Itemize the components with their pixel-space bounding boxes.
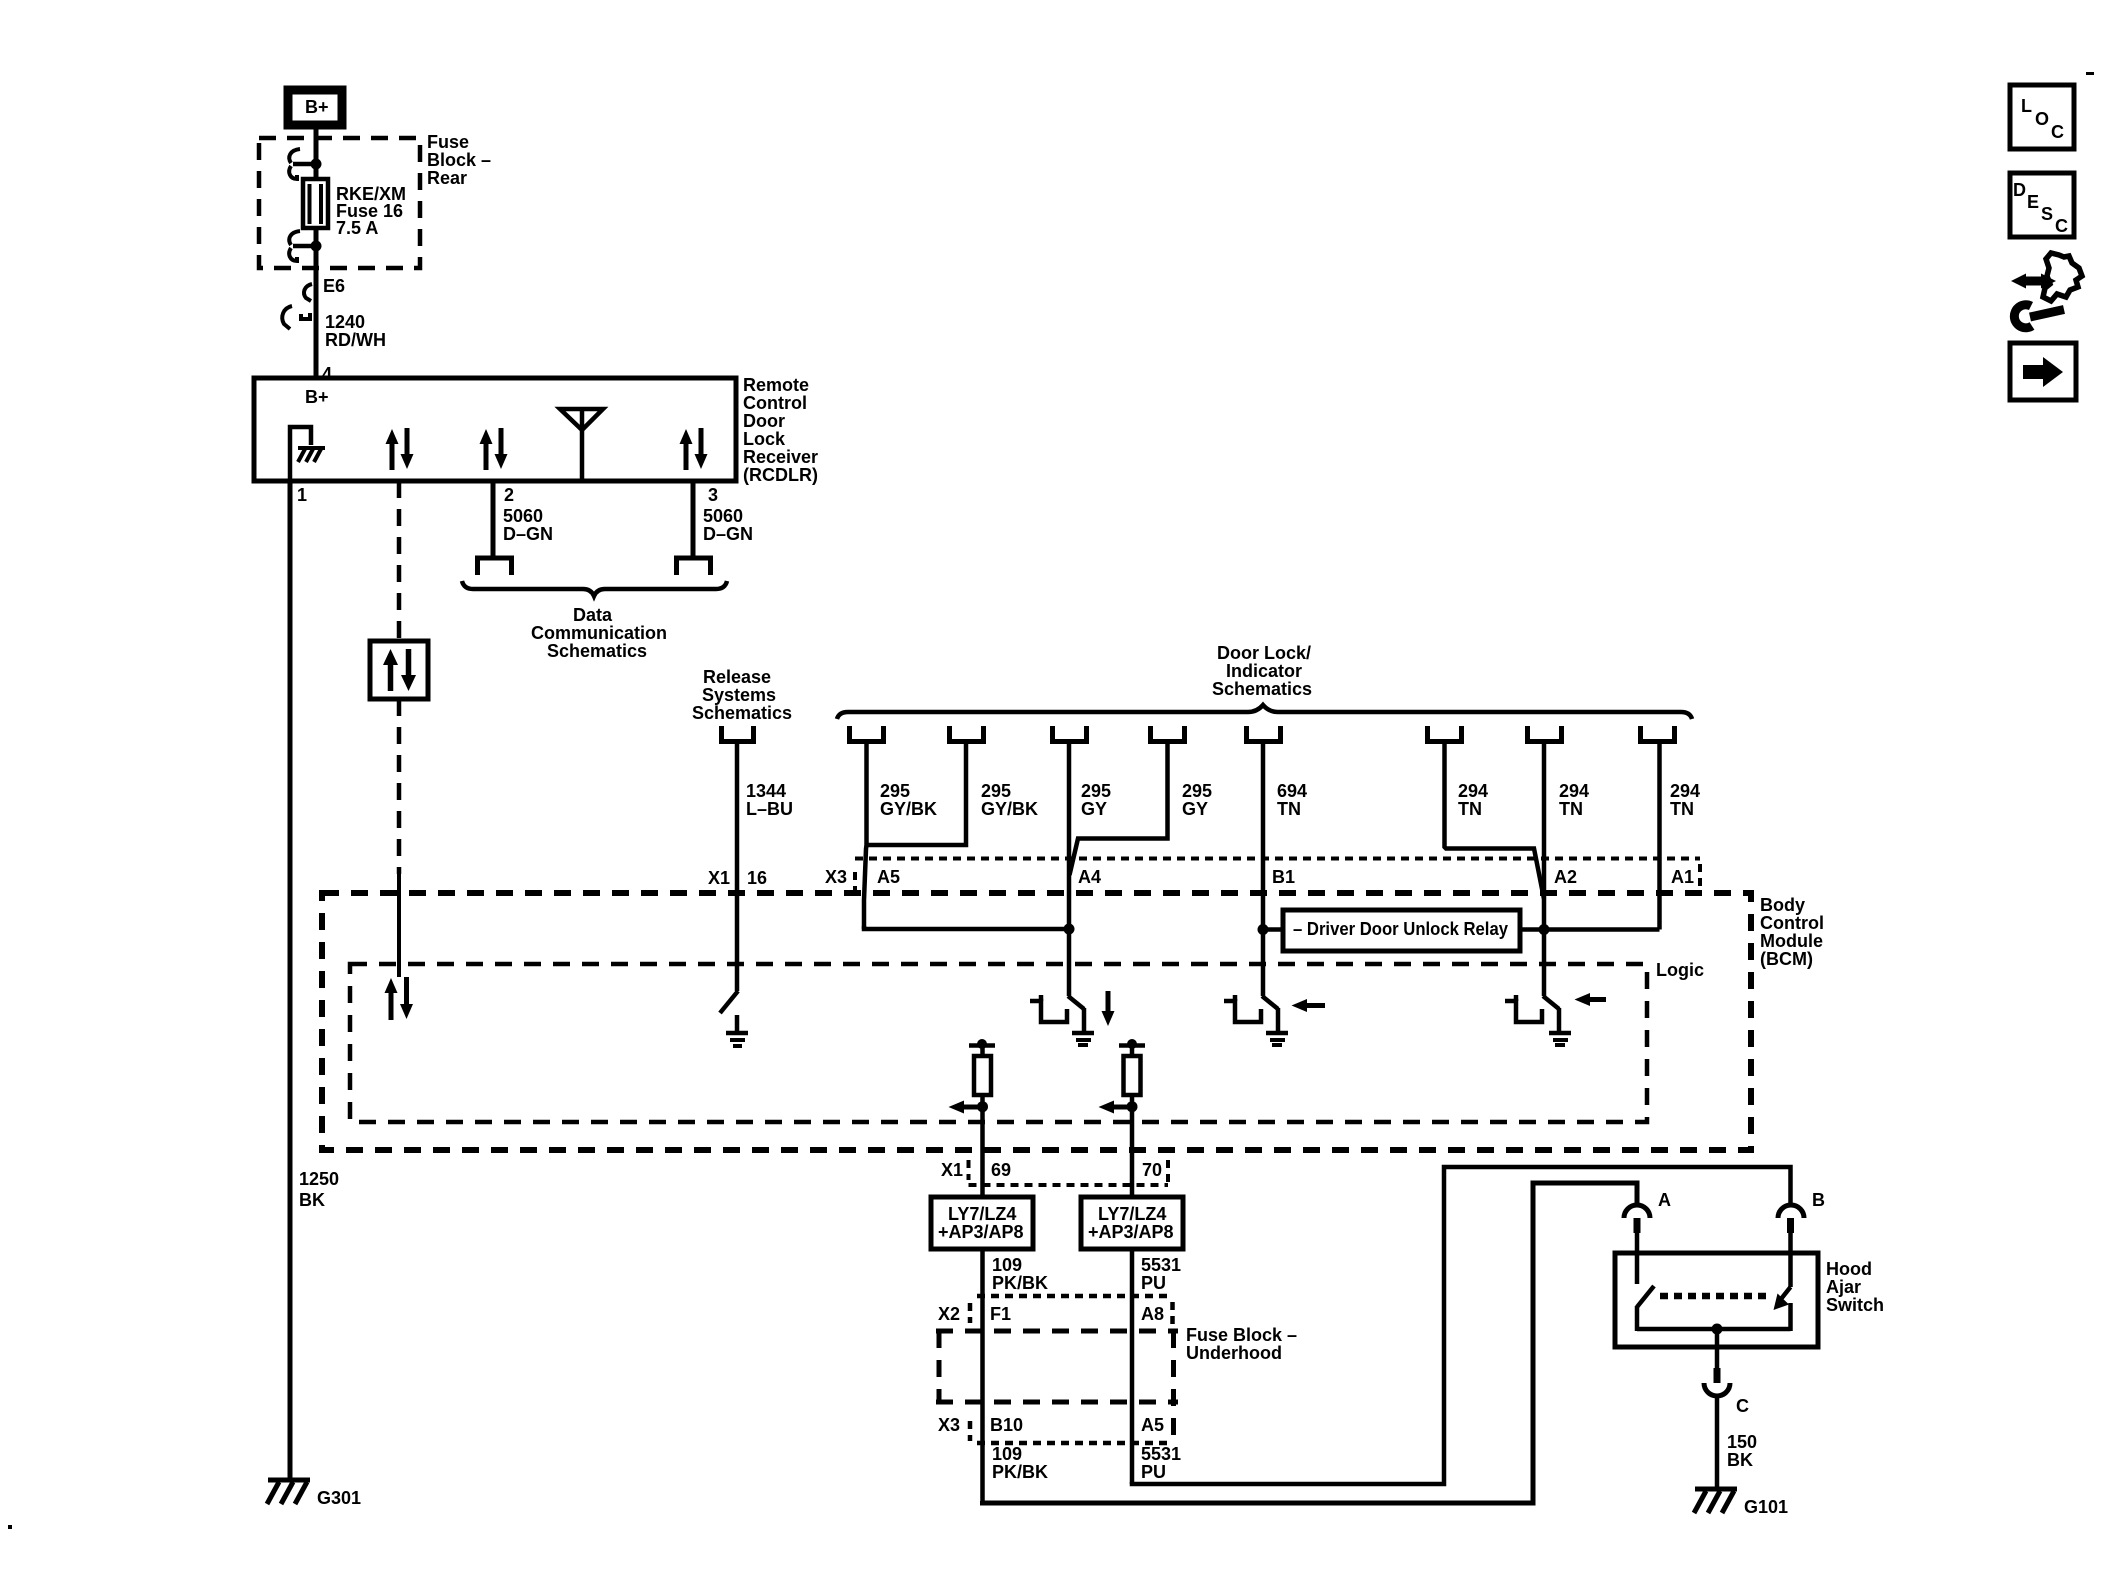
driver output hook A2: [1505, 995, 1542, 1022]
icon box LOC: [2010, 85, 2074, 149]
down arrow at A4 switch: [1102, 991, 1115, 1026]
svg-text:2: 2: [504, 485, 514, 505]
label 294 TN a: [1458, 781, 1488, 819]
label RKE/XM Fuse 16 7.5 A: [336, 184, 406, 238]
off-page pad A4 wire a: [1053, 726, 1087, 742]
fuse F16 body: [303, 179, 328, 228]
svg-text:Module: Module: [1760, 931, 1823, 951]
svg-text:B10: B10: [990, 1415, 1023, 1435]
wire 694 TN: [1261, 744, 1266, 996]
svg-text:Control: Control: [1760, 913, 1824, 933]
svg-text:Data: Data: [573, 605, 613, 625]
connector X2 dotted line: [970, 1296, 1173, 1324]
tiny mark bottom left: [8, 1525, 12, 1529]
svg-text:PU: PU: [1141, 1462, 1166, 1482]
label 1344 L-BU: [746, 781, 793, 819]
switch A2: [1543, 996, 1571, 1045]
svg-text:S: S: [2041, 204, 2053, 224]
svg-text:A2: A2: [1554, 867, 1577, 887]
wire pin 2: [491, 481, 496, 557]
junction and left arrow 70: [1099, 1101, 1138, 1114]
svg-text:(RCDLR): (RCDLR): [743, 465, 818, 485]
svg-text:Switch: Switch: [1826, 1295, 1884, 1315]
wire A into switch: [1635, 1233, 1640, 1284]
wire pin 1 to G301: [288, 481, 293, 1480]
svg-text:GY: GY: [1081, 799, 1107, 819]
wire resistor 70 down: [1130, 1095, 1135, 1197]
wire fuse to bottom clip: [314, 164, 319, 181]
svg-text:Rear: Rear: [427, 168, 467, 188]
connector A arc: [1624, 1205, 1650, 1233]
label 5060 D-GN pin2: [503, 506, 553, 544]
svg-text:B: B: [1812, 1190, 1825, 1210]
svg-text:Lock: Lock: [743, 429, 786, 449]
wire 5531 bottom run to hood switch: [1132, 1167, 1791, 1484]
svg-text:Schematics: Schematics: [692, 703, 792, 723]
label Door Lock/ Indicator Schematics: [1212, 643, 1312, 699]
connector label X1 16: [708, 868, 767, 888]
bidirectional arrows symbol 2 in RCDLR: [480, 428, 508, 470]
wire 295 GY a: [1067, 744, 1072, 996]
svg-text:+AP3/AP8: +AP3/AP8: [1088, 1222, 1174, 1242]
svg-text:109: 109: [992, 1255, 1022, 1275]
svg-text:X3: X3: [938, 1415, 960, 1435]
svg-text:Schematics: Schematics: [547, 641, 647, 661]
svg-text:A4: A4: [1078, 867, 1101, 887]
serial data arrows box: [370, 641, 428, 699]
left arrow at A2 switch: [1575, 993, 1607, 1006]
internal ground of RCDLR: [290, 427, 325, 480]
svg-text:Door Lock/: Door Lock/: [1217, 643, 1311, 663]
wire 109 through fuse block: [980, 1249, 985, 1503]
svg-text:G301: G301: [317, 1488, 361, 1508]
wire 5531 through fuse block: [1130, 1249, 1135, 1484]
svg-text:+AP3/AP8: +AP3/AP8: [938, 1222, 1024, 1242]
svg-text:A5: A5: [877, 867, 900, 887]
off-page pad B1 wire: [1247, 726, 1281, 742]
svg-text:694: 694: [1277, 781, 1307, 801]
svg-text:TN: TN: [1559, 799, 1583, 819]
svg-text:4: 4: [322, 364, 332, 384]
svg-text:70: 70: [1142, 1160, 1162, 1180]
svg-text:PK/BK: PK/BK: [992, 1273, 1048, 1293]
wire resistor 69 down: [980, 1095, 985, 1197]
svg-text:Hood: Hood: [1826, 1259, 1872, 1279]
svg-text:B+: B+: [305, 97, 329, 117]
wire 295 GY/BK b joining: [868, 744, 966, 845]
driver door unlock relay box: [1283, 910, 1520, 951]
label 5531 PU upper: [1141, 1255, 1181, 1293]
hood ajar switch box: [1615, 1253, 1818, 1347]
svg-text:GY: GY: [1182, 799, 1208, 819]
switch blade A: [1637, 1286, 1654, 1307]
svg-text:X2: X2: [938, 1304, 960, 1324]
svg-text:LY7/LZ4: LY7/LZ4: [1098, 1204, 1166, 1224]
label Fuse Block - Rear: [427, 132, 491, 188]
in-line connector symbol pair: [282, 306, 310, 329]
svg-text:Schematics: Schematics: [1212, 679, 1312, 699]
driver output hook A4: [1030, 995, 1067, 1022]
fuse block underhood dashed outline: [936, 1331, 1178, 1440]
svg-text:D–GN: D–GN: [703, 524, 753, 544]
svg-text:X3: X3: [825, 867, 847, 887]
B+ battery terminal box: [288, 90, 342, 125]
connector X3 underhood dotted line: [970, 1421, 1168, 1443]
label 1250 BK: [299, 1169, 339, 1210]
bidirectional arrows symbol 3 in RCDLR: [680, 428, 708, 470]
svg-text:Systems: Systems: [702, 685, 776, 705]
off-page pad A4 wire b: [1151, 726, 1185, 742]
svg-text:Ajar: Ajar: [1826, 1277, 1861, 1297]
svg-text:X1: X1: [941, 1160, 963, 1180]
switch A4: [1068, 996, 1094, 1045]
svg-text:Remote: Remote: [743, 375, 809, 395]
label 694 TN: [1277, 781, 1307, 819]
label Remote Control Door Lock Receiver (RCDLR): [743, 375, 818, 485]
RCDLR box: [254, 378, 736, 481]
off-page pad A5 wire b: [950, 726, 984, 742]
brace door lock group: [837, 705, 1692, 719]
svg-text:L: L: [2021, 96, 2032, 116]
engine option box LY7/LZ4 +AP3/AP8 left: [931, 1197, 1033, 1249]
svg-text:L–BU: L–BU: [746, 799, 793, 819]
svg-text:C: C: [2051, 122, 2064, 142]
ground G301: [267, 1480, 310, 1504]
label Body Control Module (BCM): [1760, 895, 1824, 969]
svg-text:E: E: [2027, 192, 2039, 212]
label 5060 D-GN pin3: [703, 506, 753, 544]
svg-text:BK: BK: [1727, 1450, 1753, 1470]
svg-text:Block –: Block –: [427, 150, 491, 170]
connector C arc: [1704, 1368, 1730, 1396]
off-page pad release: [722, 726, 754, 742]
label 109 PK/BK lower: [992, 1444, 1048, 1482]
svg-text:C: C: [2055, 216, 2068, 236]
svg-text:Fuse: Fuse: [427, 132, 469, 152]
connector X1 dotted line: [969, 1160, 1169, 1185]
svg-text:O: O: [2035, 109, 2049, 129]
label 294 TN b: [1559, 781, 1589, 819]
off-page pad A2 wire b: [1528, 726, 1562, 742]
svg-text:295: 295: [880, 781, 910, 801]
fuse terminal clip bottom: [289, 231, 321, 261]
resistor 70: [1124, 1045, 1141, 1095]
wire 295 GY b joining: [1070, 744, 1168, 875]
wire B+ to fuse block: [314, 129, 319, 164]
label Hood Ajar Switch: [1826, 1259, 1884, 1315]
svg-text:295: 295: [981, 781, 1011, 801]
tiny mark top right: [2086, 72, 2094, 75]
BCM dashed box: [322, 893, 1751, 1150]
svg-text:109: 109: [992, 1444, 1022, 1464]
ground G101: [1694, 1489, 1737, 1513]
mechanical link dashed: [1660, 1293, 1772, 1300]
wire 295 GY/BK a: [864, 744, 867, 929]
svg-text:1240: 1240: [325, 312, 365, 332]
label 295 GY a: [1081, 781, 1111, 819]
svg-text:GY/BK: GY/BK: [880, 799, 937, 819]
svg-text:294: 294: [1670, 781, 1700, 801]
common wire hood switch: [1637, 1327, 1791, 1332]
wire A5 into BCM: [864, 926, 1067, 929]
svg-text:5060: 5060: [703, 506, 743, 526]
svg-text:(BCM): (BCM): [1760, 949, 1813, 969]
left arrow at B1 switch: [1292, 999, 1326, 1012]
svg-text:G101: G101: [1744, 1497, 1788, 1517]
off-page pad A5 wire a: [850, 726, 884, 742]
label 295 GY b: [1182, 781, 1212, 819]
switch for release in logic: [720, 991, 748, 1046]
connector E6 hook on wire: [304, 284, 312, 301]
svg-text:A5: A5: [1141, 1415, 1164, 1435]
wire pin 3: [691, 481, 696, 557]
svg-text:Door: Door: [743, 411, 785, 431]
svg-text:Indicator: Indicator: [1226, 661, 1302, 681]
svg-text:3: 3: [708, 485, 718, 505]
svg-text:B1: B1: [1272, 867, 1295, 887]
bidirectional arrows in BCM logic: [385, 977, 414, 1020]
label 150 BK: [1727, 1432, 1757, 1470]
wire 294 TN a: [1445, 744, 1545, 899]
svg-text:150: 150: [1727, 1432, 1757, 1452]
svg-text:1250: 1250: [299, 1169, 339, 1189]
connector X3 dotted line: [855, 859, 1700, 892]
bidirectional arrows symbol 1 in RCDLR: [386, 428, 414, 470]
wire 294 TN c A1: [1657, 744, 1662, 930]
wire to connector C: [1715, 1329, 1720, 1368]
svg-text:PU: PU: [1141, 1273, 1166, 1293]
junction dot A2 relay: [1539, 924, 1550, 935]
svg-text:69: 69: [991, 1160, 1011, 1180]
wire C to G101: [1715, 1396, 1720, 1489]
dashed wire arrow box to BCM: [397, 699, 402, 874]
svg-text:Underhood: Underhood: [1186, 1343, 1282, 1363]
svg-text:A8: A8: [1141, 1304, 1164, 1324]
label Data Communication Schematics: [531, 605, 667, 661]
icon box DESC: [2010, 173, 2074, 237]
icon wiring harness with wrench: [2011, 253, 2082, 328]
svg-text:BK: BK: [299, 1190, 325, 1210]
off-page pad pin2: [478, 558, 512, 575]
resistor 69 top tick: [969, 1039, 995, 1049]
svg-text:LY7/LZ4: LY7/LZ4: [948, 1204, 1016, 1224]
label Fuse Block - Underhood: [1186, 1325, 1297, 1363]
svg-text:B+: B+: [305, 387, 329, 407]
fuse block rear dashed box: [259, 138, 420, 268]
off-page pad pin3: [677, 558, 711, 575]
svg-text:294: 294: [1559, 781, 1589, 801]
svg-text:5060: 5060: [503, 506, 543, 526]
svg-text:Body: Body: [1760, 895, 1805, 915]
svg-text:5531: 5531: [1141, 1444, 1181, 1464]
svg-text:TN: TN: [1277, 799, 1301, 819]
wire blade A to common: [1635, 1306, 1640, 1331]
wire B1 to relay box: [1263, 927, 1283, 932]
wire 294 TN b A2: [1542, 744, 1547, 996]
driver output hook B1: [1224, 995, 1261, 1022]
svg-text:F1: F1: [990, 1304, 1011, 1324]
wire blade B to common: [1788, 1303, 1793, 1331]
junction and left arrow 69: [949, 1101, 989, 1114]
svg-text:D: D: [2013, 180, 2026, 200]
label 109 PK/BK upper: [992, 1255, 1048, 1293]
svg-text:295: 295: [1081, 781, 1111, 801]
svg-text:C: C: [1736, 1396, 1749, 1416]
label Release Systems Schematics: [692, 667, 792, 723]
label 5531 PU lower: [1141, 1444, 1181, 1482]
wire 1344: [735, 744, 740, 991]
resistor 70 top tick: [1119, 1039, 1145, 1049]
svg-text:Logic: Logic: [1656, 960, 1704, 980]
svg-text:295: 295: [1182, 781, 1212, 801]
svg-text:294: 294: [1458, 781, 1488, 801]
svg-text:PK/BK: PK/BK: [992, 1462, 1048, 1482]
wire relay output to A1: [1520, 927, 1660, 932]
wire 109 bottom run to hood switch: [983, 1183, 1638, 1503]
off-page pad A2 wire a: [1428, 726, 1462, 742]
junction dot B1 relay: [1258, 924, 1269, 935]
svg-text:Fuse Block –: Fuse Block –: [1186, 1325, 1297, 1345]
svg-text:E6: E6: [323, 276, 345, 296]
label 294 TN c: [1670, 781, 1700, 819]
svg-text:Communication: Communication: [531, 623, 667, 643]
junction dot A4/A5: [1064, 924, 1075, 935]
svg-text:X1: X1: [708, 868, 730, 888]
svg-text:16: 16: [747, 868, 767, 888]
switch B1: [1262, 996, 1288, 1045]
label 295 GY/BK b: [981, 781, 1038, 819]
svg-text:Receiver: Receiver: [743, 447, 818, 467]
engine option box LY7/LZ4 +AP3/AP8 right: [1081, 1197, 1183, 1249]
junction dot hood switch: [1712, 1324, 1723, 1335]
svg-text:5531: 5531: [1141, 1255, 1181, 1275]
svg-text:TN: TN: [1458, 799, 1482, 819]
antenna symbol: [560, 409, 603, 480]
svg-text:Control: Control: [743, 393, 807, 413]
brace data communication: [462, 581, 727, 596]
svg-text:– Driver Door Unlock Relay: – Driver Door Unlock Relay: [1293, 919, 1508, 939]
svg-text:A: A: [1658, 1190, 1671, 1210]
label 1240 RD/WH: [325, 312, 386, 350]
off-page pad A1 wire: [1641, 726, 1675, 742]
dashed wire from RCDLR: [397, 481, 402, 641]
switch blade B with arrow: [1774, 1287, 1791, 1310]
wire fuse block to RCDLR pin 4: [314, 246, 319, 378]
wire into logic: [397, 874, 401, 977]
svg-text:D–GN: D–GN: [503, 524, 553, 544]
label 295 GY/BK a: [880, 781, 937, 819]
svg-text:TN: TN: [1670, 799, 1694, 819]
svg-text:A1: A1: [1671, 867, 1694, 887]
connector B arc: [1778, 1205, 1804, 1233]
svg-text:Release: Release: [703, 667, 771, 687]
wire B into switch: [1788, 1233, 1793, 1287]
svg-text:1: 1: [297, 485, 307, 505]
svg-text:7.5 A: 7.5 A: [336, 218, 378, 238]
logic dashed box: [350, 964, 1647, 1122]
icon box forward arrow: [2010, 343, 2076, 400]
svg-text:1344: 1344: [746, 781, 786, 801]
fuse terminal clip top: [289, 149, 321, 179]
resistor 69: [974, 1045, 991, 1095]
svg-text:RD/WH: RD/WH: [325, 330, 386, 350]
svg-text:GY/BK: GY/BK: [981, 799, 1038, 819]
